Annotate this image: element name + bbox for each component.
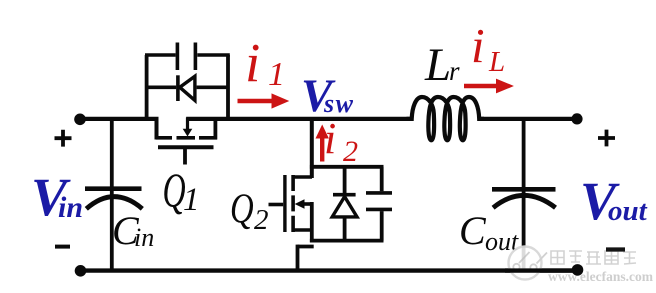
body diode of Q2 branch wires [343,167,347,241]
svg-text:in: in [134,223,154,252]
plus sign Vout [598,130,615,147]
svg-text:out: out [608,195,648,227]
capacitor Cout [492,189,556,207]
transistor Q2 bottom contact [293,228,312,232]
label Cin [112,208,154,253]
label node Vsw [301,70,354,122]
transistor Q2 drain contact [293,175,312,179]
watermark url text [548,269,654,284]
output capacitance of Q2 branch wires [380,167,384,241]
svg-text:in: in [58,191,83,224]
label iL [471,18,505,78]
wire Q2 ground jog [298,245,314,249]
wire Q2 source tie [310,202,314,242]
svg-text:Q: Q [230,186,254,233]
node dot top-right [571,113,582,124]
label Q2 [230,186,269,236]
transistor Q2 channel dashes [291,175,295,232]
label Cout [459,208,519,256]
transistor Q1 snubber box left edge [145,55,149,118]
svg-text:L: L [488,46,505,78]
svg-text:r: r [449,56,460,86]
wire top rail middle [186,117,411,121]
label i2 [324,114,358,168]
label Vout [580,171,648,231]
label Q1 [163,163,200,218]
svg-text:2: 2 [254,204,269,236]
plus sign Vin [55,130,72,147]
transistor Q2 gate lead [269,203,284,207]
wire Cin lead [110,119,114,271]
label i1 [245,32,285,93]
svg-text:2: 2 [343,135,358,168]
transistor Q1 body arrow head [183,129,193,137]
body diode of Q2 triangle [332,197,357,217]
minus sign Vin [55,245,70,249]
body diode of Q1 axis wires [147,86,228,90]
node dot bottom-right [572,264,584,276]
transistor Q2 source contact with body arrow [295,199,312,209]
svg-text:C: C [459,208,487,253]
inductor Lr [407,97,485,140]
watermark logo circle [509,247,548,280]
output capacitance of Q2 plates [366,193,392,210]
body diode of Q2 cathode bar [333,193,356,197]
current arrow i1 [238,93,290,108]
svg-text:i: i [245,32,260,93]
wire bottom rail [80,268,578,272]
label Vin [31,167,83,227]
svg-text:L: L [424,39,451,91]
minus sign Vout [606,247,625,251]
transistor Q1 mosfet body [156,117,217,165]
current arrow i2 [316,125,329,162]
wire Vsw drop to Q2 drain [310,119,314,178]
wire top rail left [80,117,159,121]
wire Cout lead [522,119,526,271]
svg-text:1: 1 [183,182,200,218]
label Lr [424,39,460,91]
body diode of Q1 triangle [180,76,195,100]
output capacitance of Q1 [177,43,195,71]
svg-text:1: 1 [268,56,285,93]
wire top rail right [479,117,578,121]
Q2 parallel box top wire [310,165,384,169]
wire bottom rail overlay right [505,268,578,272]
transistor Q2 gate bar [283,175,286,232]
node dot bottom-left [75,265,87,277]
capacitor Cin [85,189,142,209]
svg-text:i: i [324,114,336,163]
body diode of Q1 cathode bar [176,75,180,101]
svg-text:i: i [471,18,485,73]
wire Q2 ground lead [296,245,300,270]
Q2 parallel box bottom wire [310,239,384,243]
node dot top-left [74,114,86,126]
current arrow iL [464,79,514,94]
transistor Q1 box top wires [145,53,230,57]
watermark chinese glyph blocks [551,251,636,264]
transistor Q1 snubber box right edge [226,55,230,119]
